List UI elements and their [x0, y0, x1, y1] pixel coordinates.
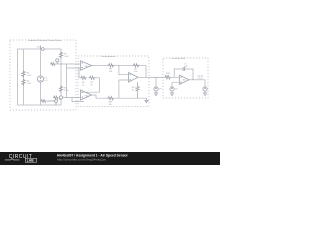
svg-text:Low Pass Filter: Low Pass Filter: [172, 57, 186, 60]
wire: sense vertical link: [66, 64, 68, 98]
op-amp OA4: [179, 75, 189, 84]
svg-text:10k: 10k: [134, 71, 137, 73]
wire: gain network to OA2 inverting input: [81, 78, 100, 92]
svg-text:1k: 1k: [91, 84, 93, 86]
wire: source center vertical: [40, 49, 42, 105]
wire: OA1 output to top rail: [92, 65, 147, 77]
wire: into OA4 inverting input: [171, 69, 182, 77]
resistor R12 (to ground, vertical): [136, 83, 139, 99]
sense element RS1 with terminal (top tap): [50, 59, 59, 66]
ground (V4): [203, 92, 207, 96]
resistor R1 (left arm top): [22, 71, 25, 78]
capacitor C1 (feedback): [182, 67, 186, 71]
footer bar: [0, 152, 220, 165]
svg-text:1k: 1k: [82, 84, 84, 86]
resistor R5 (offset branch): [41, 100, 47, 103]
op-amp OA2: [81, 90, 92, 100]
node: offset branch terminal: [47, 100, 57, 105]
resistor R4 (right arm bottom): [59, 86, 62, 93]
wire: OA3 output exits box: [138, 76, 163, 78]
ground (bottom rail): [144, 99, 148, 103]
subcircuit box: Low Pass Filter (dashed): [163, 58, 208, 98]
resistor R6 (gain network left): [80, 76, 87, 79]
wire: input reference branch: [155, 77, 157, 86]
wire: OA1 feedback drop: [67, 68, 81, 78]
resistor R10 (bottom rail left): [107, 97, 114, 100]
svg-text:V(out): V(out): [198, 75, 204, 78]
svg-text:V2: V2: [175, 89, 178, 91]
svg-text:V3: V3: [159, 89, 162, 91]
wire: jog below bottom tap: [72, 98, 84, 102]
resistor R2 (left arm bottom): [22, 79, 25, 86]
voltage source V3 (offset): [154, 87, 158, 91]
resistor R13 (filter input): [164, 76, 171, 79]
resistor R7 (gain network right): [89, 76, 96, 79]
op-amp OA3: [129, 73, 139, 83]
voltage source V2 (reference): [170, 87, 174, 91]
voltage source V4 (load): [203, 87, 207, 91]
wire: bottom tap to OA2: [63, 97, 81, 99]
svg-text:1k: 1k: [132, 90, 134, 92]
svg-text:10k: 10k: [166, 76, 169, 78]
wire: OA4 output: [189, 79, 205, 81]
wire: feedback to output node: [186, 69, 193, 80]
svg-text:+5V: +5V: [36, 47, 40, 49]
svg-text:LAB: LAB: [27, 159, 34, 163]
wire: OA4 non-inverting branch: [172, 82, 179, 86]
resistor R9 (feedback into OA3): [133, 64, 140, 67]
wire: OA2 output to bottom rail: [92, 95, 147, 99]
svg-text:1 kΩ: 1 kΩ: [64, 56, 69, 58]
wire: tap to OA3 inverting input: [119, 65, 129, 74]
svg-text:5 V: 5 V: [44, 80, 48, 82]
resistor R3 (right arm top): [59, 52, 62, 59]
junction: output node: [193, 79, 194, 80]
wire: bridge outer rectangle: [18, 49, 62, 105]
wire: filter input: [149, 76, 164, 78]
subcircuit box: Instrumentation Amplifier (dashed): [78, 56, 149, 107]
svg-text:1µF: 1µF: [184, 66, 188, 68]
svg-text:10k: 10k: [109, 104, 112, 106]
wire: output load branch: [204, 80, 206, 87]
wire: top tap to OA1: [50, 63, 81, 65]
resistor R8 (top rail left): [108, 64, 115, 67]
svg-text:Simulated Wheatstone Pressure: Simulated Wheatstone Pressure Sensor: [28, 39, 62, 42]
node: +5V terminal on bridge top: [41, 46, 45, 51]
svg-text:1 kΩ: 1 kΩ: [27, 83, 32, 85]
CircuitLab logo: [5, 154, 37, 163]
svg-text:Instrumentation: Instrumentation: [102, 55, 116, 58]
subcircuit box: Simulated Wheatstone Pressure Sensor (dashed): [10, 40, 76, 110]
svg-text:1 kΩ: 1 kΩ: [27, 75, 32, 77]
voltage source V1: [37, 76, 43, 82]
svg-text:2.5 V: 2.5 V: [198, 78, 203, 80]
svg-text:http://circuitlab.com/c9mg54wk: http://circuitlab.com/c9mg54wkq2pv: [57, 158, 106, 162]
sense element RS2 with terminal (bottom tap): [53, 96, 63, 99]
wire: bridge inner-left vertical: [23, 49, 25, 105]
ground (V3): [154, 92, 158, 96]
svg-text:10k: 10k: [109, 71, 112, 73]
op-amp OA1: [81, 61, 92, 70]
wire: tap to OA3 non-inverting input: [119, 80, 129, 98]
junction: feedback node: [146, 77, 147, 78]
ground (V2): [170, 92, 174, 96]
svg-text:0V: 0V: [59, 99, 62, 101]
